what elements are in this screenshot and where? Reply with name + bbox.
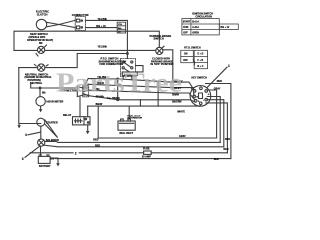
svg-text:START: START — [183, 21, 191, 24]
svg-text:BATTERY: BATTERY — [39, 165, 51, 168]
junction dots on bus — [117, 78, 119, 80]
svg-text:B + C: B + C — [198, 66, 204, 68]
wire relay top right corner up — [87, 106, 89, 117]
wire seat-circuit loop top — [14, 31, 159, 50]
svg-text:Blk + Or: Blk + Or — [96, 25, 106, 28]
wire battery to ground — [50, 158, 58, 164]
svg-text:WHITE: WHITE — [177, 111, 185, 114]
P.T.O. switch box (dashed) — [120, 59, 135, 77]
label 1 pointer — [207, 67, 227, 88]
svg-text:SWITCH: SWITCH — [154, 37, 164, 41]
wire white line down to REG RECT terminal — [128, 106, 130, 119]
ground arrow below hour meter — [40, 106, 42, 110]
svg-text:STARTER: STARTER — [46, 121, 58, 124]
REG RECT box — [118, 121, 135, 130]
svg-text:PartsTree: PartsTree — [56, 66, 182, 97]
wire bus1 connector to ORANGE/key pin — [88, 79, 194, 90]
wire white line down to gray line — [97, 106, 99, 138]
key switch pins — [193, 90, 196, 93]
svg-text:CIRCULATION: CIRCULATION — [196, 15, 213, 18]
wire solenoid diag to RED2 line — [44, 145, 224, 147]
relay K1 — [73, 117, 91, 125]
svg-text:A+B+I: A+B+I — [192, 26, 199, 29]
svg-text:P.T.O. SWITCH: P.T.O. SWITCH — [184, 47, 201, 50]
wire clutch to connector (bowtie) — [47, 20, 75, 27]
label 2 — [74, 151, 79, 156]
wire hour meter bus — [31, 84, 78, 88]
seat switch S1 — [14, 49, 37, 51]
svg-text:RED: RED — [95, 145, 100, 148]
wire right verticals — [207, 97, 220, 143]
svg-text:GRAY: GRAY — [214, 87, 221, 90]
parking brake switch S2 — [156, 47, 163, 54]
label 3 pointer — [25, 146, 40, 157]
wire bus4 connector to line A junction — [83, 94, 118, 100]
wire vertical x158 bus to white line — [157, 82, 159, 106]
hour meter M1 — [36, 97, 45, 106]
svg-text:OFF: OFF — [183, 33, 188, 35]
svg-text:GRAY: GRAY — [179, 135, 186, 138]
svg-text:OPEN: OPEN — [192, 33, 199, 35]
svg-text:SOLENOID: SOLENOID — [46, 139, 59, 142]
wire bottom line y158.6 — [55, 158, 231, 160]
battery BT1 — [38, 156, 50, 163]
ground arrow left of starter — [19, 124, 41, 126]
svg-text:YEL: YEL — [118, 24, 123, 26]
svg-text:F + B: F + B — [198, 60, 204, 62]
wire bus3 fan source — [83, 90, 88, 92]
svg-text:3: 3 — [22, 157, 24, 161]
svg-text:E + D: E + D — [198, 54, 204, 56]
key switch circle — [190, 86, 211, 107]
svg-text:RED: RED — [225, 138, 230, 141]
svg-text:RUN: RUN — [183, 27, 188, 29]
neutral switch S3 — [19, 67, 38, 69]
electric clutch L1 — [36, 19, 46, 29]
wire solenoid to right bus RED1 — [45, 141, 220, 142]
PTO table — [181, 50, 194, 62]
wire starter cable diagonals — [45, 120, 57, 137]
wire line A down to white line — [139, 100, 141, 106]
wire seat switch to parking brake switch — [45, 49, 156, 51]
svg-text:OPERATOR IN SEAT): OPERATOR IN SEAT) — [27, 38, 53, 42]
svg-text:CLUTCH: CLUTCH — [37, 12, 48, 16]
svg-text:Blk/W: Blk/W — [96, 103, 103, 106]
wire white: relay to key bottom pin — [88, 105, 201, 107]
starter M2 — [37, 118, 45, 126]
wire connector bottom drop to relay — [79, 97, 81, 117]
svg-text:YEL/Blk: YEL/Blk — [98, 46, 108, 49]
ground arrow below relay — [87, 125, 89, 131]
wire connector to inline box (top, YEL/Blk) — [85, 20, 127, 58]
svg-text:B+S+I: B+S+I — [192, 22, 199, 24]
wire gray line to right vertical — [98, 137, 216, 139]
PTO pin label box — [122, 72, 137, 76]
svg-text:RED: RED — [224, 148, 229, 151]
svg-text:ON: ON — [184, 54, 188, 56]
PTO switch internals — [122, 61, 124, 63]
fuse F1 — [144, 151, 152, 154]
svg-text:REG. RECT: REG. RECT — [120, 132, 134, 135]
svg-text:OFF: OFF — [183, 60, 188, 62]
inline connector box — [117, 22, 125, 33]
wire connector to inline box (bottom, Blk+Or) — [85, 27, 117, 29]
solenoid — [38, 139, 45, 146]
wire bus3 connector to Blk-W/key pin — [88, 90, 195, 100]
svg-text:YEL/Blk: YEL/Blk — [98, 18, 108, 21]
svg-text:30 AMP: 30 AMP — [142, 156, 151, 159]
wire hour meter drop — [39, 88, 41, 97]
wire PTO right stub loop — [136, 66, 144, 72]
label 4 pointer — [28, 132, 40, 135]
svg-text:4: 4 — [25, 133, 27, 137]
svg-text:NEUTRAL: NEUTRAL — [30, 81, 43, 85]
wire PTO box bottom pins to bus — [123, 75, 132, 80]
svg-text:C (+ Blk/W): C (+ Blk/W) — [107, 97, 120, 100]
svg-text:RED: RED — [93, 139, 98, 142]
svg-text:RELAY: RELAY — [63, 114, 72, 117]
svg-text:KEY SWITCH: KEY SWITCH — [191, 77, 207, 80]
svg-text:Or: Or — [118, 31, 121, 33]
wire line A: bus down and right to Bk/GRN pin — [118, 79, 196, 102]
multi-wire connector (fan) — [77, 87, 88, 97]
svg-text:2: 2 — [75, 152, 77, 156]
wire starter to solenoid vertical — [40, 127, 42, 139]
wire bus2 fan source — [83, 84, 88, 90]
wire fuse line y152.8 — [30, 152, 227, 154]
svg-text:HOUR METER: HOUR METER — [47, 100, 64, 103]
wire neutral switch up to PTO feed line — [45, 54, 128, 68]
wire solenoid down to battery — [40, 146, 42, 155]
wire bus1 fan source — [83, 79, 88, 89]
connector J1 (dashed box) — [75, 17, 85, 31]
wire RED stub to outer vertical — [206, 84, 231, 159]
svg-text:Blk + Or: Blk + Or — [221, 27, 230, 29]
svg-text:CONNECTOR: CONNECTOR — [72, 13, 89, 17]
svg-text:RED: RED — [217, 80, 222, 83]
wire neutral branch left vertical — [18, 68, 20, 124]
wire parking brake right stub down to orange line — [163, 50, 173, 82]
wire bus2 connector to VIOLET/key pin — [88, 84, 194, 96]
svg-text:1: 1 — [228, 64, 230, 68]
svg-text:Bk/GRN: Bk/GRN — [172, 100, 181, 103]
svg-text:ALTERNATOR: ALTERNATOR — [127, 117, 142, 120]
svg-text:RED: RED — [214, 158, 219, 161]
wire GRAY stub to vertical — [208, 90, 217, 138]
svg-text:FUSE: FUSE — [143, 148, 150, 151]
ignition switch table — [182, 19, 219, 35]
